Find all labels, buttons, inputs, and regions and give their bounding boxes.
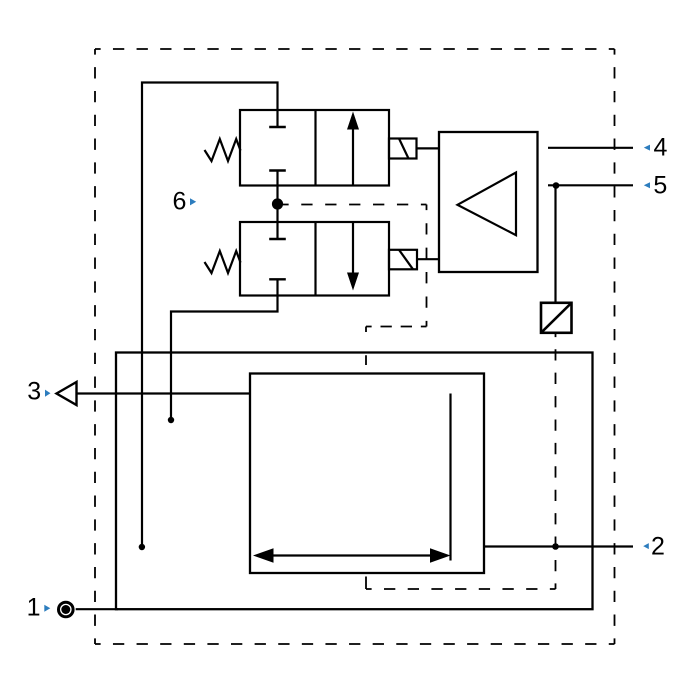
wire converter to node on line 5 [554,186,556,303]
marker 4 [644,145,650,151]
pilot line (dashed) corner left [366,326,427,328]
piston rod line [449,394,451,561]
pilot line (dashed) converter down to line 2 junction [555,332,557,590]
line to port 5 [548,184,633,186]
svg-text:4: 4 [654,134,668,162]
pilot line (dashed) corner down [426,205,428,327]
wire solenoid V1 to amplifier [417,147,440,149]
line to port 2 [484,545,633,547]
valve V2 flow arrow (down) [352,222,354,274]
valve V2 spring [205,251,241,273]
wire end dot (node) [139,544,145,550]
svg-text:5: 5 [653,171,667,199]
port 3 exhaust triangle [57,382,77,405]
actuator block outline [250,374,484,574]
marker 3 [45,390,51,397]
marker 1 [44,605,50,612]
enclosure dashed border right [614,49,616,644]
valve V1 spring [205,139,241,161]
valve V1 flow arrow (up) [352,127,354,186]
pilot line (dashed) up to actuator bottom edge [365,573,367,589]
svg-text:2: 2 [651,532,665,560]
marker 5 [644,182,650,188]
enclosure dashed border left [94,49,96,644]
marker 2 [643,543,649,549]
wire from bottom valve lower port [171,296,278,418]
wire end dot (node) [168,417,174,423]
svg-text:1: 1 [27,594,41,622]
converter box [541,303,572,333]
pilot line (dashed) down to actuator top [365,327,367,374]
wire solenoid V2 to amplifier [417,258,439,260]
controller block outline [116,353,593,610]
node 6 junction dot [272,198,283,209]
svg-text:6: 6 [173,188,187,216]
line from port 1 [76,608,118,610]
port 1 supply symbol [59,602,74,617]
marker 6 [190,198,196,205]
valve V1 solenoid [389,139,417,159]
node on line 5 [553,182,560,189]
wire bridging valves through node 6 [276,186,278,223]
node on line 2 [552,543,559,550]
valve V2 solenoid [389,250,417,269]
wire from top valve upper port to supply node [142,83,278,545]
valve V2 lower seat [269,278,286,280]
valve V1 lower seat [269,169,286,171]
line to port 4 [548,147,633,149]
valve V2 upper seat [276,222,278,239]
line to port 3 [77,392,251,394]
valve V1 upper seat [276,110,278,127]
valve V2 body [240,222,389,296]
pilot line (dashed) along actuator bottom [366,588,556,590]
pilot line (dashed) node 6 to corner [283,204,427,206]
enclosure dashed border bottom [95,643,615,645]
amplifier U1 box [439,132,538,272]
amplifier U1 triangle [458,173,517,236]
svg-text:3: 3 [27,378,41,406]
valve V1 body [240,110,389,186]
stroke double arrow [258,554,446,556]
enclosure dashed border top [95,48,615,50]
